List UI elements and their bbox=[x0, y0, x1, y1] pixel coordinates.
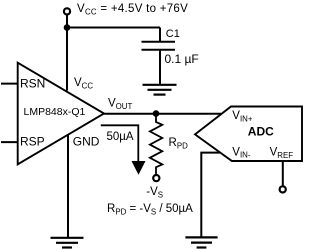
svg-text:RSP: RSP bbox=[20, 134, 45, 148]
svg-text:LMP848x-Q1: LMP848x-Q1 bbox=[24, 106, 86, 118]
svg-text:ADC: ADC bbox=[248, 125, 274, 139]
svg-text:0.1 µF: 0.1 µF bbox=[165, 52, 199, 66]
svg-text:RSN: RSN bbox=[20, 77, 45, 91]
svg-text:C1: C1 bbox=[166, 28, 180, 40]
svg-text:50µA: 50µA bbox=[107, 131, 134, 143]
svg-text:GND: GND bbox=[73, 135, 100, 149]
